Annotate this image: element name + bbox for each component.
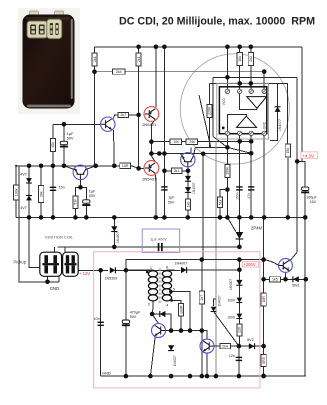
resistor R26 10R xyxy=(261,293,266,306)
wire Q1 emitter up to rail xyxy=(155,47,157,107)
node y153 b xyxy=(157,151,162,156)
resistor R12 10R xyxy=(120,163,131,168)
diode Z5 8V2 zener xyxy=(249,343,255,349)
node TR1 phase dot secondary xyxy=(170,299,173,302)
transistor Q4 xyxy=(73,165,88,180)
node gnd-bottom-e xyxy=(200,374,205,379)
wire diagonal input divider xyxy=(199,95,211,147)
svg-text:1µF: 1µF xyxy=(67,132,74,136)
wire +4.3V top rail xyxy=(95,46,303,48)
svg-text:100V: 100V xyxy=(227,298,236,302)
svg-text:1N4007: 1N4007 xyxy=(175,262,188,266)
svg-text:+200V: +200V xyxy=(243,262,255,267)
svg-text:1k0: 1k0 xyxy=(186,202,190,208)
wire Q5 emitter down xyxy=(113,130,116,166)
resistor R15 100k xyxy=(225,165,230,178)
resistor R13 2k1 xyxy=(171,168,182,173)
IC pin 4 top VCC xyxy=(262,89,266,93)
node gndbus-d xyxy=(73,215,78,220)
transistor Q1 2N5401 xyxy=(144,107,159,122)
wire chain seg3 xyxy=(238,303,240,314)
resistor R8 40k xyxy=(50,138,55,151)
node Q1 collector xyxy=(149,139,154,144)
svg-text:1µF: 1µF xyxy=(89,190,96,194)
IC pin 1 top xyxy=(225,89,229,93)
diode D8 1N4007 xyxy=(236,280,242,285)
wire chain seg2 xyxy=(238,285,240,297)
svg-text:51k: 51k xyxy=(74,199,78,205)
wire IC diode loop xyxy=(270,83,278,140)
node 2k1 right xyxy=(186,169,191,174)
diode D9 1N4007 beside IC xyxy=(275,107,281,112)
svg-text:100k: 100k xyxy=(226,167,230,175)
wire Q3 left leg stub xyxy=(181,154,183,157)
transistor T5 xyxy=(200,339,214,353)
wire transformer p4 wire xyxy=(172,300,181,303)
svg-text:VCC: VCC xyxy=(222,98,226,106)
svg-text:24k: 24k xyxy=(189,140,195,144)
wire chain to drive row xyxy=(238,260,240,270)
wire connector top stub 2 xyxy=(64,247,66,253)
node drive row right xyxy=(261,257,266,262)
ellipse highlight around comparator IC xyxy=(180,54,289,164)
svg-text:DC CDI, 20 Millijoule, max. 10: DC CDI, 20 Millijoule, max. 10000 RPM xyxy=(119,16,315,28)
CDI connector housing right xyxy=(47,19,62,39)
node y153 c xyxy=(162,151,167,156)
node gndbus-m xyxy=(249,215,254,220)
wire pin3 pullup top xyxy=(250,47,252,53)
wire 2200 branch vertical xyxy=(208,83,210,147)
resistor R19 51k xyxy=(73,196,78,209)
wire bottom-right bus xyxy=(264,375,306,377)
node rail-x164 xyxy=(162,45,167,50)
CDI box body xyxy=(23,15,74,108)
wire pin3 bottom stub xyxy=(250,133,252,141)
svg-text:Pickup: Pickup xyxy=(14,259,27,264)
transformer TR1 primary winding xyxy=(148,271,157,301)
node gnd-bottom-f xyxy=(205,374,210,379)
wire 1N4007 branch x114 xyxy=(113,217,115,247)
thyristor SCR1 2P4M xyxy=(236,232,244,239)
svg-text:2200: 2200 xyxy=(208,107,212,115)
resistor R20 100R xyxy=(178,303,183,316)
wire T5 emitter xyxy=(206,353,208,376)
node gndbus-h xyxy=(162,215,167,220)
capacitor C8 470uF 50V xyxy=(122,320,130,326)
svg-text:2P4M: 2P4M xyxy=(251,225,262,230)
wire SCR gate diagonal xyxy=(227,217,236,232)
wire x297 +4.3V feed xyxy=(291,77,298,260)
wire Q2 base node xyxy=(138,114,140,116)
node gndbus-g xyxy=(154,215,159,220)
wire 1uF branch x63.9 xyxy=(63,124,65,166)
resistor R23 120 xyxy=(237,324,242,336)
wire pin3 top stub xyxy=(250,65,252,89)
diode D1 1N4007 xyxy=(185,176,191,181)
svg-text:1N4007: 1N4007 xyxy=(192,182,196,194)
capacitor C3 47n xyxy=(248,187,254,190)
diode Z6 5W1 zener xyxy=(293,276,299,282)
svg-text:2k7: 2k7 xyxy=(120,113,126,117)
wire 2k7 branch x202 xyxy=(201,260,203,377)
wire 100k left branch xyxy=(15,166,17,218)
node gndbus-k xyxy=(225,215,230,220)
svg-text:15k: 15k xyxy=(286,148,290,154)
svg-text:1N4007: 1N4007 xyxy=(173,355,177,366)
svg-text:100R: 100R xyxy=(179,305,183,314)
wire SCR anode xyxy=(238,217,240,232)
wire after 1N4007 to chain xyxy=(187,269,240,271)
resistor R24 0R5 xyxy=(261,355,266,367)
wire 8V2 row xyxy=(239,345,264,347)
capacitor C6 plates xyxy=(158,243,163,251)
svg-text:1N5399: 1N5399 xyxy=(105,277,118,281)
node gnd-bottom-g xyxy=(214,374,219,379)
op-amp U1A triangle xyxy=(247,97,267,109)
node pin6 junction xyxy=(249,139,254,144)
capacitor C1 1uF 50V xyxy=(60,141,68,147)
wire diagonal pin1 net to node xyxy=(213,137,227,148)
svg-text:5W1: 5W1 xyxy=(292,284,299,288)
diode D6 1N4148 xyxy=(160,311,166,317)
node chain top xyxy=(237,268,242,273)
wire GND mid bus xyxy=(16,216,305,218)
node gnd-bottom-i xyxy=(261,374,266,379)
wire 40k 15n branch xyxy=(52,124,54,217)
diode D2 1N4007 xyxy=(185,187,191,192)
node 5W1 right xyxy=(304,277,309,282)
node gnd-bottom-c xyxy=(169,374,174,379)
wire output row y279.3 xyxy=(264,278,306,280)
resistor R21 2k7 xyxy=(199,291,204,304)
node pin2 net xyxy=(237,81,242,86)
node 10n top xyxy=(98,268,103,273)
wire transformer p1 top xyxy=(147,269,153,272)
svg-text:2N5401: 2N5401 xyxy=(142,176,157,181)
wire pin1 bottom stub xyxy=(226,133,228,147)
node gnd-bottom-h xyxy=(237,374,242,379)
IC pin 8 bottom xyxy=(225,131,229,135)
wire diode stub x213.5 xyxy=(214,299,216,306)
svg-text:GND: GND xyxy=(102,371,111,376)
node gnd-bottom-a xyxy=(124,374,129,379)
wire drive row y259.6 xyxy=(126,260,264,271)
svg-text:0R5: 0R5 xyxy=(262,357,266,364)
wire 10n branch xyxy=(100,270,102,376)
svg-text:2k2: 2k2 xyxy=(249,56,253,62)
svg-text:2k1: 2k1 xyxy=(93,56,97,62)
wire x216 long vertical xyxy=(215,142,217,377)
wire pin2 pullup top xyxy=(239,47,241,53)
svg-text:2k7: 2k7 xyxy=(200,295,204,301)
node gndbus-n xyxy=(262,215,267,220)
svg-text:IGNITION COIL: IGNITION COIL xyxy=(45,235,74,240)
capacitor C11 1uF 50V xyxy=(161,187,167,190)
resistor R2 2k1 xyxy=(136,53,141,66)
wire pickup-gnd branch xyxy=(19,166,59,282)
wire connector top stub xyxy=(54,247,56,252)
svg-text:100V: 100V xyxy=(227,315,236,319)
wire pin4 top stub xyxy=(263,72,265,90)
red boundary box around DC-DC converter xyxy=(94,252,260,388)
wire T4 emitter diagonal xyxy=(150,337,155,377)
node bus166-D xyxy=(62,164,67,169)
wire diode chain x188 xyxy=(187,166,189,217)
node TR1 tap5 xyxy=(169,290,173,294)
node T3 emitter row a xyxy=(261,277,266,282)
node 8V2 right xyxy=(261,344,266,349)
wire ignition GND stubs xyxy=(48,276,59,282)
wire Q4 right leg xyxy=(86,166,96,170)
wire transformer p3 down xyxy=(151,300,154,314)
wire 2k1 branch x138 down to Q2 base xyxy=(138,47,140,169)
resistor R4 10k xyxy=(237,52,242,65)
node inside IC xyxy=(222,127,225,130)
svg-text:1µF: 1µF xyxy=(168,195,175,199)
wire Q4 emitter stem xyxy=(80,178,82,187)
capacitor C2 150n xyxy=(236,187,242,190)
resistor R10 10k xyxy=(170,139,182,144)
capacitor C9 12n xyxy=(236,357,242,360)
svg-text:1: 1 xyxy=(150,266,152,270)
svg-text:47n: 47n xyxy=(247,193,251,199)
wire 39k branch xyxy=(40,166,42,218)
capacitor C7 10n xyxy=(98,322,104,325)
node bus166-C xyxy=(51,164,56,169)
wire pin1 net vertical x213 xyxy=(212,77,214,136)
connector ignition-coil housing right xyxy=(63,252,79,276)
svg-text:4V7: 4V7 xyxy=(20,206,27,210)
photo background of CDI unit xyxy=(18,8,80,114)
svg-text:1µF 400V: 1µF 400V xyxy=(150,238,167,242)
IC pin 5 bottom GND xyxy=(262,131,266,135)
node after D4 xyxy=(124,268,129,273)
wire U1B output route xyxy=(227,115,246,132)
wire Q5 collector link xyxy=(114,115,139,119)
wire pin2 top stub xyxy=(239,65,241,89)
wire transformer p1 left xyxy=(126,269,147,271)
wire gray feedback from 2k4 to pin4 xyxy=(95,71,265,73)
svg-text:1N4007: 1N4007 xyxy=(229,279,233,290)
CDI box connector tab right xyxy=(55,11,64,17)
diode D7 1N4007 xyxy=(168,345,174,350)
node 2k1 left xyxy=(162,169,167,174)
node gndbus-i xyxy=(186,215,191,220)
node y153 a xyxy=(149,151,154,156)
svg-text:5: 5 xyxy=(173,287,175,291)
wire 15k bottom to GND bus xyxy=(287,158,289,217)
node TR1 phase dot primary xyxy=(146,271,149,274)
node connector GND xyxy=(45,280,50,285)
svg-text:150n: 150n xyxy=(235,192,239,200)
capacitor C5 1uF 50V xyxy=(82,200,90,206)
wire 2k4 row xyxy=(214,345,239,347)
wire 100uF below to GND xyxy=(304,193,306,218)
resistor R9 2k7 xyxy=(118,112,129,117)
wire comparator input row y83.4 xyxy=(209,83,287,143)
transistor Q5 2N4401 xyxy=(101,117,115,131)
resistor R16 51k xyxy=(217,197,222,208)
wire Q3 collector xyxy=(193,147,195,156)
node gndbus-o xyxy=(286,215,291,220)
node pin3 div xyxy=(249,151,254,156)
node Q4 emitter xyxy=(78,185,83,190)
wire chain x239 top xyxy=(238,270,240,280)
IC pin 6 bottom xyxy=(249,131,253,135)
wire Q2 collector down to GND bus xyxy=(154,173,157,217)
node rail-R2 xyxy=(136,45,141,50)
wire pin2 bottom stub xyxy=(239,133,241,141)
svg-text:+4.3V: +4.3V xyxy=(302,153,314,158)
svg-text:6: 6 xyxy=(166,266,168,270)
wire right rail to 5W1 row xyxy=(304,217,306,376)
node gndbus-b xyxy=(39,215,44,220)
node drive row left xyxy=(200,257,205,262)
node gndbus-e xyxy=(84,215,89,220)
svg-text:2k4: 2k4 xyxy=(116,70,122,74)
svg-text:2k4: 2k4 xyxy=(222,344,228,348)
wire left 2k1 branch down xyxy=(94,47,96,166)
wire T4 collector xyxy=(152,314,158,324)
svg-text:8V2: 8V2 xyxy=(247,338,253,342)
IC pin 3 top xyxy=(249,89,253,93)
svg-text:100k: 100k xyxy=(14,188,18,196)
svg-text:50V: 50V xyxy=(168,200,175,204)
wire Q4 left leg xyxy=(64,166,75,170)
wire pin4 bottom to GND bus xyxy=(263,133,265,217)
svg-text:39k: 39k xyxy=(39,191,43,197)
node gndbus-j xyxy=(218,215,223,220)
svg-text:4: 4 xyxy=(166,304,168,308)
capacitor C6 1uF 400V box xyxy=(142,229,180,253)
node row331-c xyxy=(188,328,193,333)
wire bottom GND bus xyxy=(101,375,306,377)
transformer TR1 core xyxy=(159,269,161,304)
CDI connector housing left xyxy=(27,21,48,38)
wire 4V7 branch xyxy=(28,166,30,218)
svg-text:10n: 10n xyxy=(94,317,100,321)
svg-text:470µF: 470µF xyxy=(130,311,141,315)
node pin1 net xyxy=(225,75,230,80)
wire divider row y141.6 xyxy=(151,141,252,143)
svg-text:3: 3 xyxy=(148,302,150,306)
op-amp IC LM393 body xyxy=(219,87,266,134)
svg-text:2N5401: 2N5401 xyxy=(142,122,157,127)
capacitor C4 15n xyxy=(50,187,56,190)
wire U1A input route xyxy=(240,94,257,110)
diode Z1 4V7 zener xyxy=(26,178,32,183)
node bus166 x16 corner xyxy=(15,165,17,167)
wire 51k branch xyxy=(220,190,227,218)
node rail-Q1e xyxy=(154,45,159,50)
node T5 base node xyxy=(237,344,242,349)
wire diode row y314 xyxy=(152,314,171,331)
resistor R11 24k xyxy=(186,139,198,144)
wire T3 base curve xyxy=(264,260,279,266)
svg-text:50V: 50V xyxy=(67,137,74,141)
svg-text:2N4o4: 2N4o4 xyxy=(282,266,290,270)
svg-text:10R: 10R xyxy=(262,296,266,303)
transistor Q3 2N4401 xyxy=(181,153,195,167)
wire top rail right drop xyxy=(301,47,303,162)
wire input row y153.4 xyxy=(151,153,251,155)
node Q2 base xyxy=(136,166,141,171)
diode D5 1N4007 xyxy=(181,267,187,273)
diode D3 1N4007 xyxy=(111,226,117,231)
node p3 junction xyxy=(150,312,155,317)
wire x203 vertical xyxy=(202,154,204,260)
svg-text:1k5: 1k5 xyxy=(272,278,278,282)
svg-text:12n: 12n xyxy=(229,354,235,358)
wire 12n branch xyxy=(238,346,240,376)
wire pickup input branch xyxy=(29,217,40,267)
wire diagonal node to pin3 net xyxy=(227,147,251,153)
svg-text:120: 120 xyxy=(238,327,242,333)
wire +12V from connector xyxy=(78,269,108,271)
resistor R3 2k4 xyxy=(113,69,126,74)
wire 1uF50V branch2 xyxy=(81,187,87,217)
node Q1 base xyxy=(136,113,141,118)
diode D4 1N5399 xyxy=(110,267,116,273)
wire +12V after diode xyxy=(115,269,180,271)
wire y147.3 collector link xyxy=(195,146,227,148)
node bus166-E xyxy=(93,164,98,169)
connector ignition-coil housing left xyxy=(40,252,62,276)
node bus166-F xyxy=(112,164,117,169)
wire trigger row y246.9 xyxy=(57,246,239,248)
wire transformer p5 tap xyxy=(171,292,190,331)
svg-text:50V: 50V xyxy=(89,194,96,198)
node R1 bottom xyxy=(92,69,97,74)
node x263 bottom xyxy=(261,374,266,379)
resistor R22 2k4 xyxy=(220,344,231,349)
node chain drive tap xyxy=(237,257,242,262)
wire +4.3V node stub xyxy=(297,161,305,217)
wire 51k2 branch xyxy=(75,187,80,217)
wire 100R bottom xyxy=(180,316,182,331)
wire input top y124.3 xyxy=(53,123,101,125)
CDI box connector tab left xyxy=(30,11,39,17)
svg-text:10R: 10R xyxy=(122,164,129,168)
node C1 top xyxy=(62,122,67,127)
node rail-R5 xyxy=(249,45,254,50)
red border of +4.3V label xyxy=(301,152,318,158)
node row331-a xyxy=(169,328,174,333)
transistor T4 xyxy=(152,324,166,338)
wire transformer p6 top xyxy=(167,269,174,272)
node pin3 net xyxy=(249,81,254,86)
svg-text:10k: 10k xyxy=(238,56,242,62)
svg-text:51k: 51k xyxy=(218,199,222,205)
diode Z2 4V7 zener xyxy=(26,196,32,201)
node T3 emitter row b xyxy=(283,277,288,282)
resistor R14 1k0 xyxy=(185,199,190,210)
wire 47n cap branch xyxy=(250,141,252,217)
svg-text:2k1: 2k1 xyxy=(137,56,141,62)
svg-text:100µF: 100µF xyxy=(306,196,317,200)
wire SCR cathode xyxy=(238,239,240,247)
IC pin 7 bottom xyxy=(238,131,242,135)
svg-text:15n: 15n xyxy=(59,185,65,189)
wire 470uF branch xyxy=(125,270,127,376)
resistor R5 2k2 xyxy=(248,52,253,65)
wire pin1 top stub xyxy=(226,47,228,89)
svg-text:1N4007: 1N4007 xyxy=(116,232,120,243)
svg-text:GND: GND xyxy=(263,121,267,129)
node SCR cathode xyxy=(237,245,242,250)
wire T3 emitter xyxy=(285,272,287,279)
node gate node xyxy=(225,145,230,150)
